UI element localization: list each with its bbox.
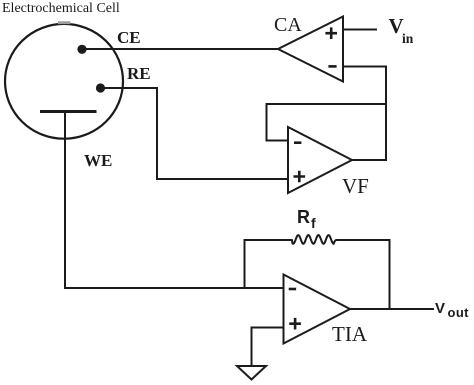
TIA plus input symbol [291, 319, 300, 328]
VF minus input symbol [295, 141, 300, 144]
svg-text:in: in [402, 31, 414, 46]
svg-text:CE: CE [117, 28, 141, 47]
wire Rf left leg to TIA - input node [244, 240, 246, 288]
svg-text:VF: VF [342, 174, 369, 198]
svg-text:WE: WE [84, 151, 112, 170]
op-amp U2 VF (voltage follower, pointing right) [288, 127, 352, 193]
wire RE to VF + input [100, 88, 288, 179]
wire VF output [352, 159, 386, 161]
svg-text:RE: RE [127, 64, 151, 83]
op-amp U1 CA (control amplifier, pointing left) [278, 17, 343, 82]
wire CA - input to VF output node [343, 67, 386, 161]
resistor Rf (feedback, squiggle) [245, 235, 390, 244]
electrode WE (bar inside cell) [42, 110, 96, 113]
svg-text:V: V [435, 300, 445, 317]
CA minus input symbol [330, 65, 336, 68]
op-amp U3 TIA (transimpedance amplifier, pointing right) [284, 275, 351, 344]
ground symbol [237, 366, 266, 380]
node CE (terminal dot) [77, 45, 86, 54]
svg-text:out: out [448, 305, 470, 320]
wire V_in to CA + input [343, 29, 376, 31]
CA plus input symbol [327, 29, 336, 38]
wire TIA + input to ground [252, 328, 284, 367]
wire WE to TIA - input [65, 112, 284, 289]
wire VF feedback loop to - input [267, 104, 387, 141]
svg-text:f: f [311, 215, 316, 231]
VF plus input symbol [295, 172, 304, 181]
wire Rf right leg to TIA output node [389, 240, 391, 309]
electrochemical cell body (circle) [5, 24, 123, 139]
wire TIA output to V_out [350, 308, 433, 310]
wire CE to CA output [82, 48, 278, 50]
svg-text:Electrochemical Cell: Electrochemical Cell [2, 1, 120, 16]
node RE (terminal dot) [96, 83, 105, 92]
svg-text:CA: CA [274, 14, 302, 36]
svg-text:TIA: TIA [332, 322, 368, 346]
svg-text:R: R [297, 207, 310, 227]
TIA minus input symbol [290, 288, 295, 291]
